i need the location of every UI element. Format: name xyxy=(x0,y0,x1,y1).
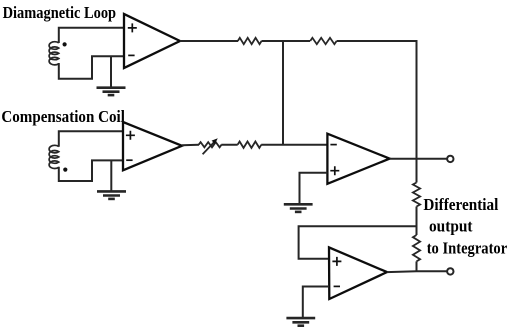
wire: U1 output to R1 xyxy=(180,40,238,42)
wire: L2 bottom to U2 - input xyxy=(59,160,123,181)
resistor R3 xyxy=(238,142,262,148)
wire: U2 output to VR1 xyxy=(182,144,199,147)
wire: R5 to output node xyxy=(416,261,418,271)
op-amp U4 xyxy=(329,247,387,299)
op-amp U3 xyxy=(327,134,389,184)
wire: U3 + input to ground xyxy=(300,173,328,205)
svg-text:to Integrator: to Integrator xyxy=(427,239,508,258)
wire: node A vertical down to U3 - input line xyxy=(282,41,284,145)
wire: U4 output to output terminal 2 xyxy=(387,270,447,273)
wire: L1 top to U1 + input xyxy=(59,28,124,43)
polarity dot of L2 xyxy=(63,168,67,172)
polarity dot of L1 xyxy=(63,42,67,46)
wire: R1 to R2 with node A junction xyxy=(262,40,311,42)
variable resistor VR1 xyxy=(199,138,222,154)
inductor L1 (diamagnetic loop pickup coil) xyxy=(49,42,59,65)
output terminal 1 (open circle) xyxy=(447,156,453,162)
svg-text:Differential: Differential xyxy=(423,195,498,214)
wire: node B feedback to U4 + input xyxy=(299,226,417,258)
resistor R2 xyxy=(310,38,336,44)
wire: U3 output to output terminal 1 xyxy=(390,158,447,160)
wire: VR1 to R3 xyxy=(221,144,237,146)
wire: R3 to U3 - input (through node A junction) xyxy=(261,144,327,146)
resistor R1 xyxy=(238,38,262,44)
op-amp U1 xyxy=(124,14,180,68)
wire: ground stem at U2 - input xyxy=(110,160,112,191)
svg-text:Compensation Coil: Compensation Coil xyxy=(1,107,125,126)
ground (U3 + input) xyxy=(284,204,313,212)
op-amp U2 xyxy=(123,122,182,170)
wire: ground stem at U1 - input xyxy=(110,56,112,87)
svg-text:Diamagnetic Loop: Diamagnetic Loop xyxy=(3,3,117,22)
wire: L1 bottom to U1 - input xyxy=(59,56,124,78)
wire: R4 to R5 with node B junction xyxy=(416,207,418,236)
output terminal 2 (open circle) xyxy=(447,268,453,274)
ground (U2 - input) xyxy=(97,191,126,199)
wire: R2 to right bus corner xyxy=(337,41,417,183)
wire: U4 - input to ground xyxy=(303,287,329,319)
ground (U1 - input) xyxy=(97,88,126,95)
resistor R5 (vertical) xyxy=(413,235,420,261)
resistor R4 (vertical) xyxy=(413,183,420,207)
ground (U4 - input) xyxy=(286,318,315,326)
wire: L2 top to U2 + input xyxy=(59,131,123,147)
svg-text:output: output xyxy=(429,217,473,236)
inductor L2 (compensation coil) xyxy=(49,145,59,168)
